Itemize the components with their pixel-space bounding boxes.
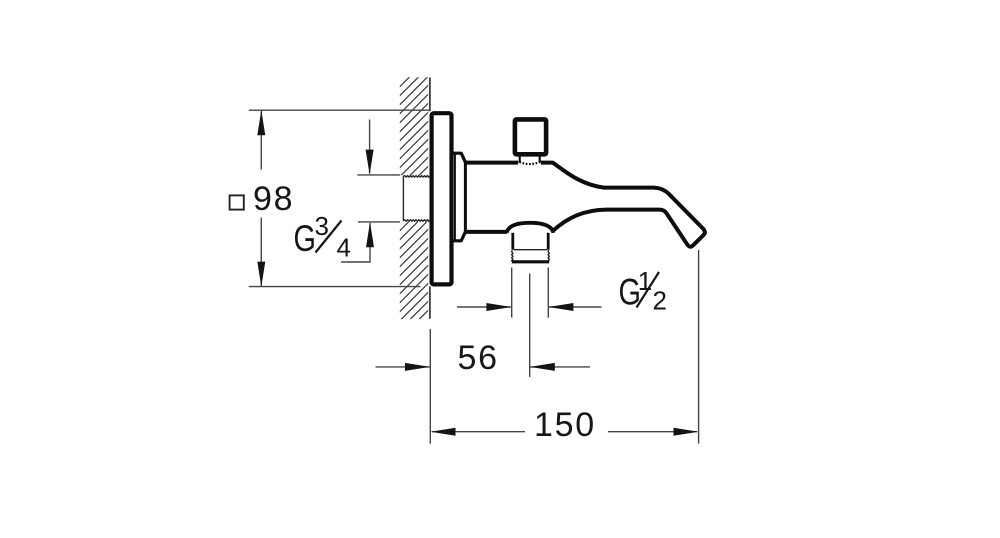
arrowhead 98 up [257,110,265,135]
dim G3/4 bottom edge mark [358,221,400,223]
svg-text:56: 56 [458,339,499,377]
faucet body bottom edge [465,230,507,234]
arrowhead 56 right-pointing [405,363,430,371]
outlet cylinder sides [511,233,514,250]
wall hatching [399,57,430,439]
svg-text:4: 4 [337,233,351,263]
outlet collar line [514,249,548,251]
dim G1/2 left leader [457,306,511,308]
dim 56 right leader [530,366,590,368]
flange top chamfer [453,153,465,162]
dim: extension line below outlet right [547,268,549,318]
flange bottom chamfer [453,232,465,241]
arrowhead G1/2 right-pointing [486,303,511,311]
svg-text:150: 150 [534,406,596,444]
svg-text:98: 98 [253,180,294,218]
dim: extension line below outlet left [249,110,699,443]
svg-text:2: 2 [653,286,667,316]
dim 56 left leader [376,366,430,368]
dim 98 bottom extension [249,286,421,288]
arrowhead G3/4 up [366,222,374,247]
dim G3/4 top edge mark [358,174,401,176]
escutcheon plate [432,113,452,284]
dim 98 line lower [260,218,262,287]
svg-text:1: 1 [638,266,652,296]
wall face line [429,78,431,319]
dim G1/2 right leader [549,306,602,308]
square symbol of dim 98 [230,195,244,209]
G3/4 threaded pipe in wall [403,176,429,222]
dim 150 line right part [608,431,697,433]
svg-text:3: 3 [315,211,329,241]
arrowhead 150 right end [674,428,699,436]
arrowhead 56 left-pointing [530,363,555,371]
dim 98 line upper [260,110,262,169]
dim G3/4 up-arrow leader [341,223,370,262]
arrowhead 150 left end [431,428,456,436]
dim G3/4 down-arrow line [369,120,371,174]
faucet body + spout outline [541,163,705,247]
outlet bottom edge [512,260,549,263]
arrowhead G1/2 left-pointing [548,303,573,311]
text G1/2: fraction slash [637,272,660,308]
valve square [515,119,546,154]
dim 150 right extension [698,250,700,444]
arrowhead 98 down [257,262,265,287]
outlet dome [507,223,554,233]
flange right edge [464,161,467,233]
dim 150 left extension [429,329,431,444]
dim 150 line left part [432,431,525,433]
dim: outlet centerline [529,274,531,378]
flange left face line [454,154,456,241]
valve neck knurled saddle [519,162,540,164]
outlet thread zigzags [512,250,513,261]
dim 98 top extension [249,109,430,111]
valve neck sides [519,156,521,162]
text G3/4: fraction slash [316,221,342,253]
svg-text:G: G [294,219,316,260]
arrowhead G3/4 down [366,150,374,175]
faucet body top edge (left of valve) [465,161,518,165]
